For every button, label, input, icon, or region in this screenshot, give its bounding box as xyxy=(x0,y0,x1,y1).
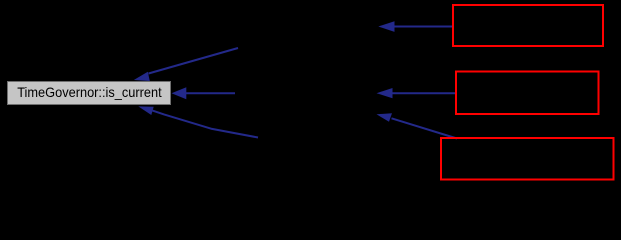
arrowhead of edge F xyxy=(377,113,393,122)
wire: edge F from bottom red truncated box to middle caller node 2 xyxy=(392,118,458,138)
node TimeGovernor::is_current (current function, gray filled) xyxy=(8,82,171,105)
caller box R2 (truncated node, red border, middle right) xyxy=(456,72,599,115)
arrowhead of edge D xyxy=(378,21,394,32)
wire: edge E from middle red truncated box to middle caller node 2 xyxy=(392,92,457,94)
arrowhead of edge B xyxy=(172,87,187,99)
caller box R3 (truncated node, red border, bottom right) xyxy=(441,138,614,180)
arrowhead of edge E xyxy=(377,88,393,98)
wire: edge D from top red truncated box to middle caller node 1 xyxy=(395,26,454,28)
svg-text:TimeGovernor::is_current: TimeGovernor::is_current xyxy=(17,85,162,100)
wire: edge B from middle caller node 2 to TimeGovernor::is_current xyxy=(186,92,235,94)
wire: edge A from middle caller node 1 to TimeGovernor::is_current xyxy=(149,48,239,74)
arrowhead of edge C xyxy=(138,106,153,115)
wire: edge C from middle caller node 3 to TimeGovernor::is_current xyxy=(153,111,259,138)
caller box R1 (truncated node, red border, top right) xyxy=(453,5,603,46)
arrowhead of edge A xyxy=(134,72,150,81)
